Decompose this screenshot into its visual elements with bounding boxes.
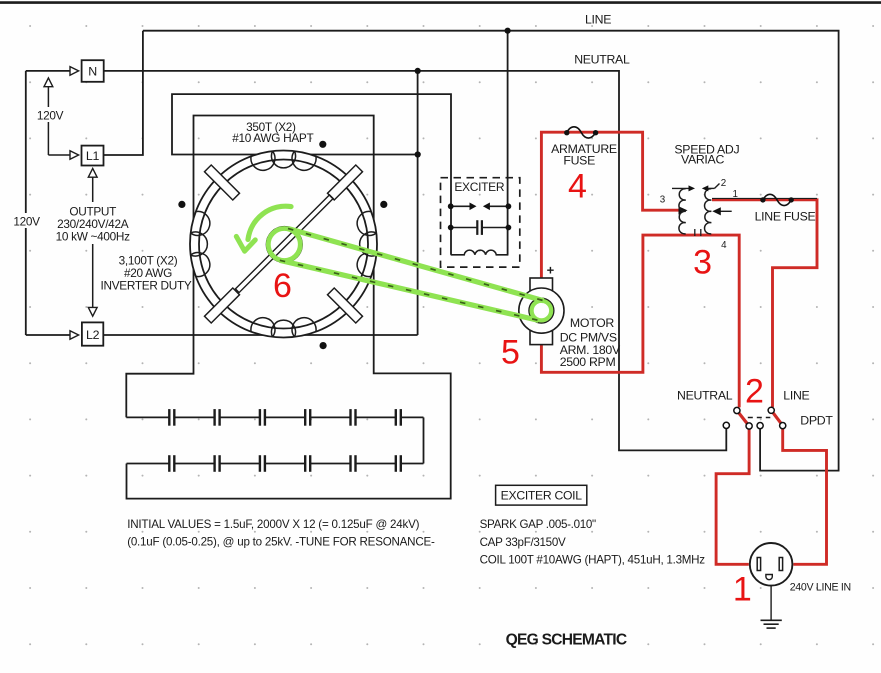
label OUTPUT 230/240V/42A 10 kW ~400Hz — [56, 202, 131, 244]
exciter capacitor — [451, 227, 478, 229]
junction node at (418,71) — [415, 68, 421, 74]
thin black co-line on pin1 wire — [712, 197, 817, 199]
3100T winding loop / 350T label box outline — [126, 116, 450, 499]
rotor salient poles — [327, 165, 362, 200]
svg-text:COIL 100T #10AWG (HAPT), 451uH: COIL 100T #10AWG (HAPT), 451uH, 1.3MHz — [480, 554, 706, 567]
variac core dashes — [694, 229, 696, 236]
svg-text:(0.1uF (0.05-0.25), @ up to 25: (0.1uF (0.05-0.25), @ up to 25kV. -TUNE … — [127, 536, 435, 549]
capacitor C5 (row 1) — [350, 408, 355, 426]
drive belt (green) — [288, 229, 544, 301]
DPDT contact pole B — [768, 407, 774, 413]
svg-text:NEUTRAL: NEUTRAL — [574, 53, 630, 67]
svg-text:SPARK GAP .005-.010": SPARK GAP .005-.010" — [480, 518, 596, 531]
capacitor C8 (row 2) — [215, 455, 220, 473]
variac pin 2 terminal with arrow — [702, 185, 709, 191]
rotor shaft circle — [267, 227, 303, 263]
armature fuse F1 — [567, 127, 596, 138]
winding polarity dot (top) — [319, 141, 326, 148]
svg-text:120V: 120V — [13, 215, 40, 229]
svg-text:LINE: LINE — [783, 388, 809, 402]
svg-text:FUSE: FUSE — [563, 154, 595, 168]
label 120V (upper) — [36, 107, 64, 123]
capacitor bank wiring row1/row2 — [126, 416, 423, 418]
wire NEUTRAL rail (from N box right, down at x=619, to DPDT throw) — [104, 71, 727, 451]
svg-text:INVERTER DUTY: INVERTER DUTY — [101, 279, 192, 293]
winding polarity dot (right) — [380, 201, 387, 208]
red wire: armature fuse loop, left side down to motor + — [541, 132, 680, 278]
arrow into N — [70, 67, 79, 76]
wire y=154.5 chord from x=172 to junction — [172, 94, 451, 255]
wire from L1 up to LINE rail — [104, 31, 143, 155]
DPDT red blade pole B — [771, 410, 783, 425]
svg-text:+: + — [547, 263, 555, 278]
variac pin 3 terminal with arrow — [672, 187, 689, 189]
svg-text:N: N — [88, 65, 97, 79]
wire LINE rail (top horizontal, right vertical down to DPDT throw) — [143, 31, 839, 471]
svg-text:CAP 33pF/3150V: CAP 33pF/3150V — [480, 536, 566, 549]
capacitor C10 (row 2) — [305, 455, 310, 473]
arrow into L2 — [70, 331, 79, 340]
svg-text:EXCITER COIL: EXCITER COIL — [501, 489, 583, 503]
svg-text:LINE: LINE — [585, 12, 611, 26]
svg-text:3: 3 — [660, 195, 666, 206]
junction node at (507.6,30.7) — [505, 28, 511, 34]
svg-text:3: 3 — [693, 244, 712, 282]
red wire: motor negative loop up to variac pin4 wire, to DPDT pole A — [541, 235, 739, 407]
wire 120V left rail — [25, 71, 27, 335]
capacitor C12 (row 2) — [396, 455, 401, 473]
ground symbol — [770, 586, 772, 620]
svg-text:L2: L2 — [86, 328, 100, 342]
wire x=507.6 from LINE rail down to exciter — [507, 31, 509, 255]
red wire: DPDT throw A2 down to 240V plug left — [716, 426, 749, 564]
capacitor C4 (row 1) — [305, 408, 310, 426]
spark gap wire with opposing arrows — [451, 205, 471, 207]
red wire: DPDT throw B2 down to 240V plug right — [783, 426, 827, 565]
capacitor C2 (row 1) — [215, 408, 220, 426]
svg-text:4: 4 — [721, 240, 727, 251]
rotation arrow (green) — [248, 206, 291, 239]
EXCITER COIL label box — [496, 485, 587, 505]
svg-text:120V: 120V — [37, 109, 64, 123]
DPDT red blade pole A — [737, 411, 749, 427]
svg-text:VARIAC: VARIAC — [681, 152, 724, 166]
generator stator inner circle — [199, 160, 368, 329]
svg-text:2500 RPM: 2500 RPM — [560, 355, 616, 369]
terminal box L1 — [82, 146, 104, 166]
svg-text:INITIAL VALUES = 1.5uF, 2000V: INITIAL VALUES = 1.5uF, 2000V X 12 (= 0.… — [127, 518, 419, 531]
capacitor C6 (row 1) — [396, 408, 401, 426]
svg-text:5: 5 — [501, 334, 520, 372]
exciter junction dots — [448, 203, 454, 209]
capacitor C3 (row 1) — [260, 408, 265, 426]
terminal box L2 — [82, 322, 103, 345]
capacitor C7 (row 2) — [169, 455, 174, 473]
exciter inductor L1x — [451, 250, 509, 255]
wire vertical x=418 (neutral branch) — [417, 71, 419, 335]
wire from L2 box right to x=418 vertical — [103, 334, 417, 336]
svg-text:LINE FUSE: LINE FUSE — [755, 210, 816, 224]
wire into L2 box — [26, 334, 70, 336]
svg-text:MOTOR: MOTOR — [570, 316, 614, 330]
svg-text:2: 2 — [721, 178, 726, 189]
DPDT contact throw A1 — [723, 422, 729, 428]
variac coil B wiper arrow — [716, 210, 732, 212]
motor pulley — [529, 298, 554, 323]
motor M1 body — [530, 278, 553, 345]
svg-text:#10 AWG HAPT: #10 AWG HAPT — [232, 131, 313, 145]
winding polarity dot (left) — [178, 201, 185, 208]
DPDT contact throw B2 — [780, 423, 786, 429]
DPDT contact throw B1 — [757, 423, 763, 429]
terminal box N — [82, 60, 104, 82]
generator stator outer circle — [190, 151, 377, 338]
label 120V (left rail) — [12, 213, 41, 229]
exciter dashed enclosure — [441, 178, 520, 267]
junction node at (418,154.5) — [415, 151, 421, 157]
top border line — [0, 1, 881, 4]
svg-text:QEG SCHEMATIC: QEG SCHEMATIC — [506, 631, 627, 648]
stator winding scallops — [191, 151, 377, 337]
variac T1: coil B (right) — [705, 189, 712, 234]
red wire: variac pin1 through LINE FUSE down to DPDT pole B — [712, 200, 817, 407]
svg-text:2: 2 — [745, 372, 764, 410]
svg-text:240V LINE IN: 240V LINE IN — [790, 581, 851, 593]
belt dashes — [288, 229, 544, 301]
svg-text:DPDT: DPDT — [800, 414, 833, 428]
DPDT gang dashed link — [748, 417, 771, 419]
capacitor C9 (row 2) — [260, 455, 265, 473]
wiper arrowhead into variac coil A — [679, 206, 688, 214]
svg-text:1: 1 — [732, 189, 737, 200]
120V measurement arrow between N and L1 — [47, 79, 49, 156]
OUTPUT measurement double arrow — [92, 169, 94, 316]
arrow into L1 — [70, 151, 79, 160]
DPDT contact throw A2 — [746, 423, 752, 429]
line fuse F2 — [763, 194, 791, 205]
variac T1: coil A (left) — [679, 189, 686, 234]
svg-text:1: 1 — [733, 570, 752, 608]
wire from 120V rail into N box — [26, 70, 70, 72]
svg-text:NEUTRAL: NEUTRAL — [677, 388, 733, 402]
240V plug P1 — [750, 543, 793, 586]
capacitor C1 (row 1) — [169, 408, 174, 426]
svg-text:L1: L1 — [86, 149, 100, 163]
svg-text:10 kW ~400Hz: 10 kW ~400Hz — [56, 230, 131, 244]
capacitor C11 (row 2) — [350, 455, 355, 473]
DPDT contact pole A — [734, 407, 740, 413]
svg-text:6: 6 — [273, 267, 292, 305]
svg-text:4: 4 — [568, 167, 587, 205]
winding polarity dot (bottom) — [320, 342, 327, 349]
rotor shaft bar — [235, 195, 333, 293]
svg-text:EXCITER: EXCITER — [454, 180, 505, 194]
